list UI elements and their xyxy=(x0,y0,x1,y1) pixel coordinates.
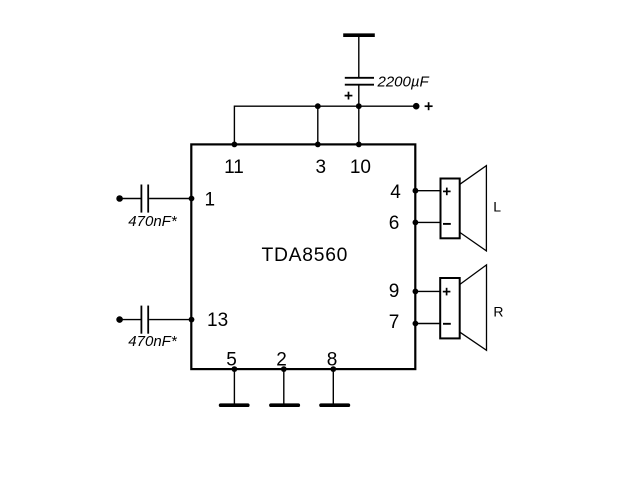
svg-text:7: 7 xyxy=(389,312,400,333)
value label 470nF* upper xyxy=(128,213,178,230)
pin 6 label xyxy=(389,213,400,234)
pin 5 label xyxy=(226,350,237,371)
speaker LS2 plus mark xyxy=(443,288,451,296)
junction pin 9 on IC edge xyxy=(413,289,419,295)
junction rail/pin10 xyxy=(356,103,362,109)
wire pin 5 to ground xyxy=(233,369,235,403)
junction pin 3 on IC edge xyxy=(315,142,321,148)
speaker LS2 horn xyxy=(460,265,487,350)
wire C2 to pin 1 xyxy=(149,198,191,200)
junction pin 10 on IC edge xyxy=(356,142,362,148)
op-amp IC U1 TDA8560 body xyxy=(191,144,415,369)
plus polarity mark at C1 xyxy=(345,92,353,100)
wire input to C3 xyxy=(120,319,141,321)
wire C1 bottom plate down to pin 10 xyxy=(358,85,360,145)
speaker LS1 horn xyxy=(460,166,487,251)
pin 11 label xyxy=(224,157,244,178)
wire rail down to pin 3 xyxy=(317,106,319,144)
junction pin 11 on IC edge xyxy=(232,142,238,148)
svg-text:13: 13 xyxy=(207,310,228,331)
pin 10 label xyxy=(350,157,371,178)
value label 470nF* lower xyxy=(128,333,178,350)
wire rail down to pin 11 xyxy=(233,106,235,145)
svg-text:L: L xyxy=(493,199,501,215)
svg-text:6: 6 xyxy=(389,213,400,234)
speaker L channel label xyxy=(493,199,501,215)
junction rail/pin3 xyxy=(315,103,321,109)
svg-text:R: R xyxy=(493,304,503,320)
speaker LS1 plus mark xyxy=(443,188,451,196)
pin 2 label xyxy=(276,350,287,371)
svg-text:3: 3 xyxy=(316,157,327,178)
svg-text:9: 9 xyxy=(389,281,400,302)
wire pin 9 to speaker R plus xyxy=(415,290,440,292)
junction pin 4 on IC edge xyxy=(413,188,419,194)
speaker LS1 minus mark xyxy=(443,223,451,225)
pin 9 label xyxy=(389,281,400,302)
svg-text:11: 11 xyxy=(224,157,244,178)
svg-text:2200µF: 2200µF xyxy=(377,74,430,91)
capacitor C3 470nF plates xyxy=(141,306,148,334)
ground symbol pin 2 xyxy=(271,403,298,407)
capacitor C1 2200uF plates xyxy=(345,78,374,85)
junction pin 1 on IC edge xyxy=(189,196,195,202)
supply terminal bar xyxy=(343,33,375,37)
wire pin 2 to ground xyxy=(283,369,285,403)
junction pin 5 on IC edge xyxy=(232,366,238,372)
svg-text:1: 1 xyxy=(205,190,216,211)
junction pin 8 on IC edge xyxy=(330,366,336,372)
wire supply bar to C1 top plate xyxy=(358,37,360,78)
wire pin 6 to speaker L minus xyxy=(415,221,440,223)
svg-text:470nF*: 470nF* xyxy=(128,333,178,350)
junction pin 6 on IC edge xyxy=(413,220,419,226)
wire input to C2 xyxy=(120,198,141,200)
svg-text:10: 10 xyxy=(350,157,371,178)
pin 8 label xyxy=(327,350,338,371)
wire pin 7 to speaker R minus xyxy=(415,323,440,325)
speaker R channel label xyxy=(493,304,503,320)
pin 13 label xyxy=(207,310,228,331)
junction pin 2 on IC edge xyxy=(281,366,287,372)
speaker LS2 R body xyxy=(440,278,460,338)
ground symbol pin 5 xyxy=(221,403,248,407)
speaker LS2 minus mark xyxy=(443,323,451,325)
svg-text:4: 4 xyxy=(390,182,401,203)
IC name label TDA8560 xyxy=(261,245,348,266)
wire C3 to pin 13 xyxy=(149,319,191,321)
speaker LS1 L body xyxy=(441,179,460,239)
pin 1 label xyxy=(205,190,216,211)
capacitor C2 470nF plates xyxy=(141,185,148,213)
pin 4 label xyxy=(390,182,401,203)
plus sign V+ terminal xyxy=(425,102,433,110)
terminal dot input left channel xyxy=(116,195,123,202)
svg-text:TDA8560: TDA8560 xyxy=(261,245,348,266)
wire pin 4 to speaker L plus xyxy=(415,190,440,192)
wire pin 8 to ground xyxy=(332,369,334,403)
terminal dot input right channel xyxy=(116,316,123,323)
pin 7 label xyxy=(389,312,400,333)
ground symbol pin 8 xyxy=(321,403,348,407)
junction pin 7 on IC edge xyxy=(413,321,419,327)
terminal dot V+ xyxy=(413,103,420,110)
junction pin 13 on IC edge xyxy=(189,317,195,323)
value label 2200uF xyxy=(377,74,430,91)
wire V+ horizontal rail xyxy=(234,105,416,107)
svg-text:470nF*: 470nF* xyxy=(128,213,178,230)
pin 3 label xyxy=(316,157,327,178)
